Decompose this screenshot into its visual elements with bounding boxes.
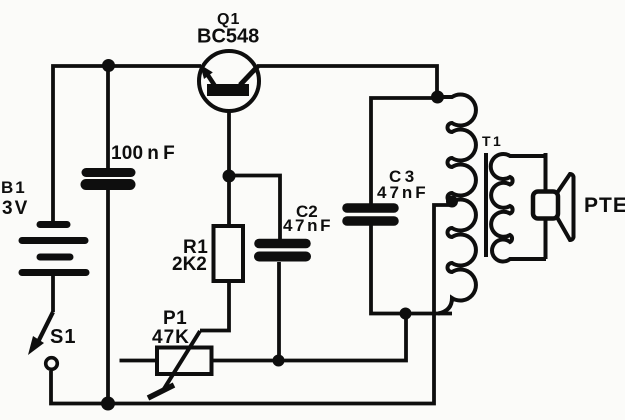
capacitor C3 plates <box>347 208 394 221</box>
potentiometer P1 wiper diagonal <box>162 331 200 392</box>
svg-text:P1: P1 <box>163 308 187 329</box>
speaker PTE driver box <box>533 192 558 219</box>
speaker PTE connecting line <box>544 153 548 259</box>
resistor R1 body <box>214 226 244 281</box>
switch S1 blade <box>36 312 53 346</box>
speaker PTE horn <box>556 174 574 240</box>
svg-text:BC548: BC548 <box>197 26 259 48</box>
junction dot: C2 bottom / P1 wire <box>273 355 285 367</box>
svg-text:47K: 47K <box>152 327 190 348</box>
wire: top rail right (collector to corner) <box>257 66 437 97</box>
wire: top rail left + left vertical <box>53 66 201 221</box>
transistor Q1 circle <box>199 51 259 111</box>
junction dot: transformer tap <box>446 196 458 208</box>
transistor Q1 emitter lead with arrow <box>205 70 216 86</box>
wire: P1 left stub <box>120 359 159 363</box>
potentiometer P1 body <box>157 348 212 375</box>
junction dot: collector / C3 / coil top <box>431 91 444 104</box>
svg-text:S1: S1 <box>50 326 76 348</box>
svg-text:47nF: 47nF <box>377 183 429 202</box>
wire: 100nF branch bottom <box>106 189 110 404</box>
junction dot: base / R1 / C2 <box>223 170 236 183</box>
switch S1 arrowhead <box>28 336 44 355</box>
svg-text:2K2: 2K2 <box>172 254 207 275</box>
svg-text:B1: B1 <box>1 178 27 197</box>
switch S1 terminal circle <box>46 358 58 370</box>
battery B1 plates <box>22 225 86 273</box>
transformer T1 secondary winding <box>491 154 546 262</box>
junction dot: top rail / 100nF branch <box>102 59 115 72</box>
transistor Q1 collector lead <box>240 66 258 85</box>
svg-text:3V: 3V <box>2 198 29 219</box>
wire: C2 bottom lead <box>277 262 281 361</box>
capacitor 100nF plates <box>86 173 131 185</box>
svg-text:PTE: PTE <box>584 194 625 217</box>
transistor Q1 base bar <box>207 84 249 96</box>
wire: base node to C2 top <box>229 176 280 241</box>
wire: battery to switch pivot <box>51 276 55 312</box>
wire: switch terminal to bottom rail, rail to transformer tap riser <box>51 205 451 404</box>
junction dot: 100nF branch / bottom rail <box>101 397 115 411</box>
wire: base lead down to R1 <box>227 96 231 226</box>
wire: C3 bottom lead and horizontal to transformer <box>371 225 452 314</box>
transformer T1 primary winding <box>437 95 476 314</box>
svg-text:100 n F: 100 n F <box>111 143 175 164</box>
junction dot: riser / C3 bottom wire <box>400 308 412 320</box>
wire: R1 bottom to P1 wiper link <box>200 281 229 331</box>
wire: C3 top lead to collector node <box>371 98 437 204</box>
svg-text:47nF: 47nF <box>283 216 333 235</box>
wire: P1 right lead to riser up <box>212 314 406 361</box>
potentiometer P1 wiper end bar <box>148 385 174 398</box>
svg-text:T1: T1 <box>482 133 503 149</box>
transformer T1 core <box>484 153 488 257</box>
wire: 100nF branch top <box>106 66 110 169</box>
capacitor C2 plates <box>259 244 306 257</box>
